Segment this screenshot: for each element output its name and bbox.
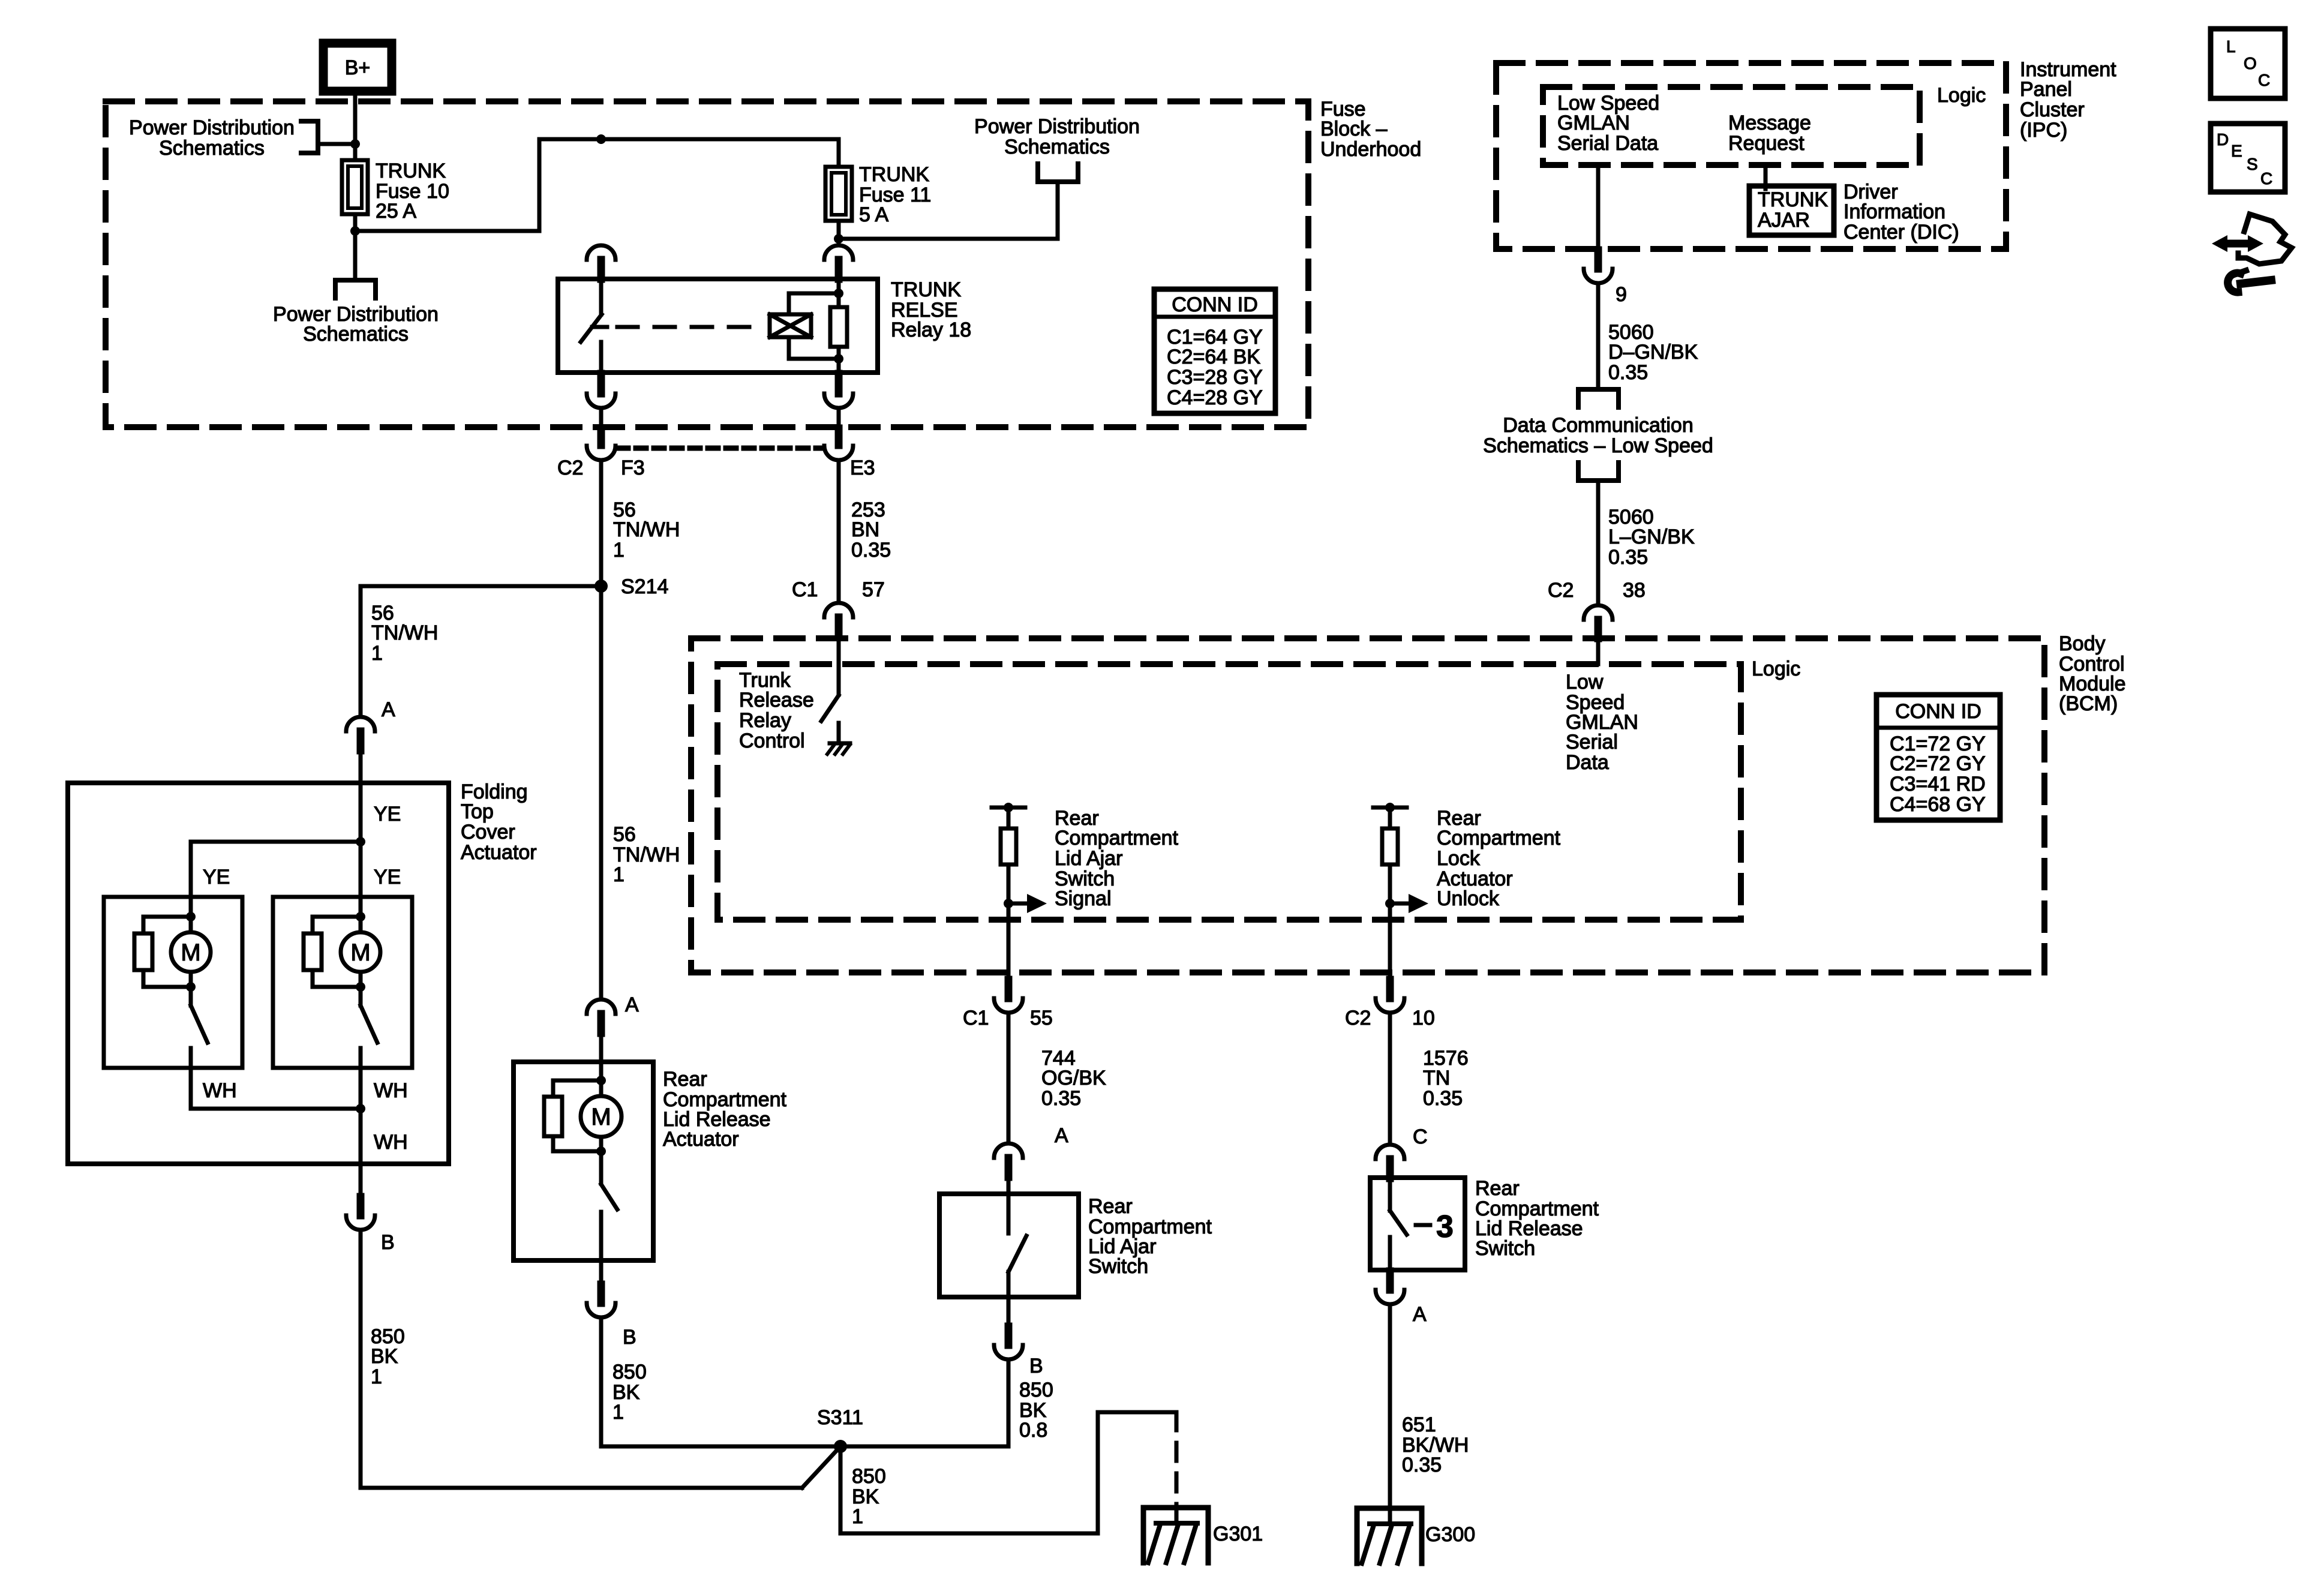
wire right motor return bbox=[359, 1068, 363, 1109]
svg-text:Switch: Switch bbox=[1475, 1237, 1535, 1260]
svg-text:B: B bbox=[623, 1326, 636, 1349]
svg-text:Information: Information bbox=[1843, 200, 1945, 223]
svg-text:1: 1 bbox=[371, 1365, 382, 1388]
svg-text:0.8: 0.8 bbox=[1019, 1419, 1047, 1442]
svg-text:TRUNK: TRUNK bbox=[891, 278, 961, 301]
connector pin relay 85 output (right) bbox=[835, 374, 843, 394]
node right motor bottom bbox=[356, 982, 365, 992]
body control module dashed box bbox=[691, 638, 2044, 972]
indicator TRUNK AJAR bbox=[1749, 186, 1834, 235]
svg-text:C4=28 GY: C4=28 GY bbox=[1167, 386, 1263, 409]
svg-text:0.35: 0.35 bbox=[1423, 1087, 1463, 1110]
svg-text:C1: C1 bbox=[963, 1007, 989, 1029]
svg-text:10: 10 bbox=[1412, 1007, 1435, 1029]
off-page bracket Power Distribution Schematics (right) bbox=[1038, 164, 1078, 182]
component box Rear Compartment Lid Ajar Switch bbox=[939, 1194, 1079, 1297]
svg-text:S214: S214 bbox=[621, 575, 668, 598]
arrow lock actuator unlock bbox=[1390, 902, 1412, 906]
svg-text:Actuator: Actuator bbox=[663, 1128, 739, 1151]
svg-text:TN: TN bbox=[1423, 1067, 1450, 1089]
svg-text:0.35: 0.35 bbox=[851, 539, 891, 562]
resistor left motor bbox=[143, 917, 191, 933]
svg-text:WH: WH bbox=[374, 1079, 408, 1102]
svg-text:651: 651 bbox=[1402, 1413, 1436, 1436]
svg-text:Logic: Logic bbox=[1752, 658, 1800, 680]
svg-text:TRUNK: TRUNK bbox=[1758, 188, 1828, 211]
svg-text:C2=72 GY: C2=72 GY bbox=[1890, 752, 1986, 775]
relay actuation dashed link bbox=[617, 325, 760, 329]
node lid release motor top bbox=[596, 1076, 606, 1085]
relay K18 TRUNK RELSE Relay 18 box bbox=[558, 279, 878, 373]
fuse F10 TRUNK Fuse 10 25 A bbox=[342, 160, 368, 214]
ipc logic dashed box bbox=[1543, 87, 1920, 165]
node lock actuator unlock bbox=[1385, 899, 1395, 908]
wire left motor return bbox=[189, 1068, 193, 1109]
icon LOC box bbox=[2211, 29, 2285, 98]
icon DESC box bbox=[2211, 124, 2285, 192]
relay solid-state diode box bbox=[770, 314, 811, 337]
node lid ajar signal bbox=[1004, 899, 1013, 908]
svg-text:57: 57 bbox=[862, 578, 885, 601]
wire 744 OG/BK bbox=[1007, 1013, 1011, 1143]
wire serial data into BCM logic bbox=[1596, 638, 1601, 664]
svg-text:OG/BK: OG/BK bbox=[1041, 1067, 1106, 1089]
motor unit box left bbox=[104, 897, 242, 1068]
svg-text:CONN ID: CONN ID bbox=[1172, 293, 1258, 316]
svg-text:1: 1 bbox=[613, 863, 624, 886]
node folding top feed split bbox=[356, 837, 365, 846]
svg-text:M: M bbox=[591, 1104, 611, 1130]
svg-text:F3: F3 bbox=[621, 457, 645, 479]
svg-text:C1: C1 bbox=[792, 578, 818, 601]
svg-text:GMLAN: GMLAN bbox=[1557, 112, 1630, 134]
svg-text:B: B bbox=[381, 1231, 395, 1254]
connector pin relay coil (right) bbox=[824, 245, 853, 260]
svg-text:Power Distribution: Power Distribution bbox=[974, 115, 1140, 138]
manual actuation dashed link bbox=[1416, 1223, 1430, 1227]
svg-text:1: 1 bbox=[612, 1401, 624, 1424]
svg-text:Message: Message bbox=[1728, 112, 1811, 134]
svg-text:YE: YE bbox=[374, 866, 401, 888]
resistor branch Rear Compartment Lid Ajar Switch Signal bbox=[992, 806, 1025, 810]
node below Fuse 11 bbox=[834, 234, 843, 244]
connector C2 38 into BCM bbox=[1584, 605, 1613, 620]
wire split to right motor bbox=[359, 842, 363, 917]
node right motor top bbox=[356, 912, 365, 921]
switch right motor bbox=[359, 987, 363, 1005]
resistor right motor bbox=[313, 917, 361, 933]
motor M lid release bbox=[599, 1080, 603, 1096]
svg-text:M: M bbox=[181, 939, 200, 966]
svg-text:D–GN/BK: D–GN/BK bbox=[1608, 341, 1698, 364]
svg-text:Logic: Logic bbox=[1937, 84, 1986, 107]
svg-text:WH: WH bbox=[374, 1131, 408, 1154]
svg-text:Compartment: Compartment bbox=[1437, 827, 1561, 849]
svg-text:9: 9 bbox=[1616, 283, 1627, 306]
resistor lid release motor bbox=[553, 1080, 601, 1097]
splice S214 bbox=[594, 580, 608, 593]
wire S311 to ground run bbox=[839, 1446, 843, 1533]
svg-text:Schematics: Schematics bbox=[159, 137, 265, 160]
svg-text:Lock: Lock bbox=[1437, 847, 1481, 870]
fuse F11 TRUNK Fuse 11 5 A bbox=[825, 167, 852, 221]
svg-text:Low: Low bbox=[1566, 671, 1604, 694]
wire into folding top actuator bbox=[359, 751, 363, 842]
svg-text:C3=41 RD: C3=41 RD bbox=[1890, 773, 1986, 795]
svg-text:Power Distribution: Power Distribution bbox=[129, 116, 295, 139]
svg-text:Cluster: Cluster bbox=[2020, 98, 2085, 121]
wire 850 BK 0.8 down bbox=[1007, 1359, 1011, 1446]
svg-text:Data Communication: Data Communication bbox=[1503, 414, 1693, 437]
svg-text:56: 56 bbox=[613, 823, 636, 846]
svg-text:5 A: 5 A bbox=[859, 203, 888, 226]
svg-text:YE: YE bbox=[203, 866, 230, 888]
wire top feed bus bbox=[539, 137, 837, 142]
svg-text:Relay: Relay bbox=[739, 709, 791, 732]
svg-text:Unlock: Unlock bbox=[1437, 887, 1500, 910]
node folding top return bbox=[356, 1104, 365, 1113]
svg-text:Request: Request bbox=[1728, 132, 1804, 155]
svg-text:Schematics: Schematics bbox=[303, 323, 409, 346]
svg-text:1: 1 bbox=[852, 1505, 863, 1528]
svg-text:C2: C2 bbox=[1345, 1007, 1371, 1029]
svg-text:Serial Data: Serial Data bbox=[1557, 132, 1658, 155]
connector C2 10 bbox=[1388, 903, 1392, 980]
motor M left bbox=[189, 917, 193, 932]
svg-text:C2=64 BK: C2=64 BK bbox=[1167, 346, 1260, 368]
node relay switch feed bbox=[596, 134, 606, 144]
wire 651 BK/WH to G300 bbox=[1388, 1304, 1392, 1508]
svg-text:G301: G301 bbox=[1213, 1523, 1263, 1545]
connector pin relay 86 (left) bbox=[587, 245, 615, 260]
connector A lid release switch bbox=[1386, 1271, 1394, 1290]
connector E3 bbox=[835, 428, 843, 445]
svg-text:S311: S311 bbox=[817, 1406, 863, 1429]
svg-text:25 A: 25 A bbox=[376, 200, 416, 223]
svg-text:Switch: Switch bbox=[1088, 1255, 1148, 1278]
svg-text:(IPC): (IPC) bbox=[2020, 119, 2067, 142]
connector A folding top cover actuator bbox=[346, 717, 375, 731]
svg-text:38: 38 bbox=[1623, 579, 1646, 602]
svg-text:BN: BN bbox=[851, 518, 879, 541]
fuse block underhood dashed box bbox=[106, 101, 1308, 427]
svg-text:Data: Data bbox=[1566, 751, 1609, 774]
svg-text:Rear: Rear bbox=[1475, 1177, 1520, 1200]
svg-text:Control: Control bbox=[739, 730, 805, 752]
svg-text:D: D bbox=[2217, 130, 2229, 149]
node B+ tap bbox=[350, 139, 360, 149]
svg-text:A: A bbox=[382, 698, 395, 721]
svg-text:YE: YE bbox=[374, 803, 401, 825]
conn id table BCM bbox=[1876, 695, 2000, 820]
svg-text:G300: G300 bbox=[1425, 1523, 1475, 1546]
wire message request to indicator bbox=[1764, 165, 1768, 189]
svg-text:0.35: 0.35 bbox=[1402, 1454, 1442, 1476]
ground internal BCM bbox=[830, 742, 850, 746]
svg-text:Rear: Rear bbox=[1088, 1195, 1133, 1218]
relay switch contact bbox=[599, 279, 603, 314]
svg-text:850: 850 bbox=[852, 1465, 886, 1488]
svg-text:A: A bbox=[625, 993, 639, 1016]
motor M right bbox=[359, 917, 363, 932]
svg-text:Compartment: Compartment bbox=[1055, 827, 1179, 849]
svg-text:Serial: Serial bbox=[1566, 731, 1618, 754]
svg-text:0.35: 0.35 bbox=[1041, 1087, 1081, 1110]
svg-text:C: C bbox=[1413, 1125, 1428, 1148]
connector B lid release actuator bbox=[599, 1260, 603, 1284]
wire gmlan serial data out of IPC bbox=[1596, 165, 1601, 250]
switch left motor bbox=[189, 987, 193, 1005]
wire fuse10 to relay feed riser bbox=[355, 229, 539, 233]
node left motor bottom bbox=[186, 982, 196, 992]
wire 5060 L-GN/BK bbox=[1596, 481, 1601, 605]
svg-text:E: E bbox=[2231, 142, 2242, 160]
splice S311 bbox=[834, 1440, 847, 1453]
conn id table fuse block bbox=[1154, 289, 1275, 413]
wire folding top actuator output bbox=[359, 1109, 363, 1197]
switch lid release actuator bbox=[599, 1151, 603, 1184]
svg-text:C2: C2 bbox=[1548, 579, 1574, 602]
component box Folding Top Cover Actuator bbox=[68, 783, 449, 1164]
svg-text:Cover: Cover bbox=[461, 821, 515, 843]
wire fuse11 to off-page reference bbox=[839, 237, 1058, 241]
svg-text:TRUNK: TRUNK bbox=[376, 160, 446, 182]
svg-text:Relay 18: Relay 18 bbox=[891, 319, 971, 341]
connector C lid release switch bbox=[1376, 1145, 1404, 1159]
power symbol B+ bbox=[323, 43, 392, 91]
svg-text:1: 1 bbox=[371, 642, 383, 665]
svg-text:O: O bbox=[2244, 54, 2257, 73]
svg-text:1: 1 bbox=[613, 539, 624, 562]
connector C2 F3 bbox=[597, 428, 605, 445]
svg-text:Schematics – Low Speed: Schematics – Low Speed bbox=[1483, 434, 1713, 457]
svg-text:C: C bbox=[2260, 169, 2272, 188]
svg-text:Release: Release bbox=[739, 689, 814, 712]
svg-text:Underhood: Underhood bbox=[1320, 138, 1421, 161]
wire 56 TN/WH from F3 bbox=[599, 460, 603, 999]
wire S214 branch to folding top actuator bbox=[361, 584, 601, 589]
svg-text:Actuator: Actuator bbox=[461, 841, 537, 864]
motor unit box right bbox=[273, 897, 412, 1068]
icon direction arrow with wrench bbox=[2238, 214, 2292, 264]
svg-text:(BCM): (BCM) bbox=[2059, 692, 2118, 715]
off-page bracket Power Distribution Schematics (below fuse 10) bbox=[335, 280, 376, 298]
svg-text:B: B bbox=[1029, 1355, 1043, 1377]
svg-text:WH: WH bbox=[203, 1079, 237, 1102]
wire into lid release actuator bbox=[599, 1033, 603, 1080]
connector B folding top cover actuator bbox=[357, 1197, 365, 1215]
wire 850 BK to S311 bbox=[359, 1230, 363, 1488]
connector pin relay 30 output (left) bbox=[597, 374, 605, 394]
svg-text:Body: Body bbox=[2059, 632, 2106, 655]
svg-text:Signal: Signal bbox=[1055, 887, 1112, 910]
connector 9 IPC bbox=[1595, 250, 1602, 269]
off-page bracket data communication (bottom) bbox=[1578, 463, 1619, 481]
wire split to left motor bbox=[191, 840, 361, 844]
arrow lid ajar switch signal bbox=[1008, 902, 1030, 906]
instrument panel cluster dashed box bbox=[1496, 63, 2006, 249]
svg-text:TN/WH: TN/WH bbox=[613, 518, 680, 541]
ground G300 bbox=[1357, 1508, 1422, 1563]
ground G301 bbox=[1143, 1508, 1208, 1563]
connector C1 55 bbox=[1007, 903, 1011, 980]
connector C1 57 into BCM bbox=[837, 460, 841, 603]
off-page bracket Power Distribution Schematics (upper left) bbox=[301, 121, 318, 153]
svg-text:B+: B+ bbox=[345, 56, 371, 79]
svg-text:C2: C2 bbox=[557, 457, 583, 479]
switch lid ajar bbox=[1007, 1177, 1011, 1233]
svg-text:M: M bbox=[350, 939, 370, 966]
wire dashed ground feed G301 bbox=[1175, 1412, 1179, 1506]
relay coil bbox=[837, 279, 841, 293]
connector line C2 bbox=[618, 446, 822, 451]
switch lid release bbox=[1388, 1178, 1392, 1211]
node left motor top bbox=[186, 912, 196, 921]
svg-text:L: L bbox=[2226, 37, 2236, 56]
svg-text:AJAR: AJAR bbox=[1758, 209, 1810, 232]
svg-text:A: A bbox=[1413, 1303, 1427, 1326]
svg-text:3: 3 bbox=[1436, 1209, 1454, 1244]
component box Rear Compartment Lid Release Actuator bbox=[514, 1062, 653, 1260]
bcm logic dashed box bbox=[717, 664, 1741, 920]
svg-text:850: 850 bbox=[612, 1361, 647, 1383]
svg-text:C4=68 GY: C4=68 GY bbox=[1890, 793, 1986, 816]
svg-text:C: C bbox=[2258, 71, 2270, 89]
svg-text:Top: Top bbox=[461, 800, 494, 823]
svg-text:0.35: 0.35 bbox=[1608, 546, 1648, 569]
svg-text:TN/WH: TN/WH bbox=[371, 622, 438, 644]
wire 1576 TN bbox=[1388, 1013, 1392, 1145]
node below Fuse 10 bbox=[353, 214, 358, 231]
svg-text:BK: BK bbox=[371, 1345, 398, 1368]
svg-text:TRUNK: TRUNK bbox=[859, 163, 929, 186]
svg-text:CONN ID: CONN ID bbox=[1895, 700, 1981, 723]
resistor branch Rear Compartment Lock Actuator Unlock bbox=[1373, 806, 1407, 810]
wire 850 BK to S311 (horizontal) bbox=[599, 1317, 603, 1446]
wire feed to Fuse 11 bbox=[837, 139, 841, 167]
svg-text:Rear: Rear bbox=[663, 1068, 707, 1091]
svg-text:Lid Ajar: Lid Ajar bbox=[1055, 847, 1122, 870]
wire below Fuse 11 bbox=[837, 221, 841, 244]
off-page bracket data communication (top) bbox=[1578, 389, 1619, 407]
svg-text:Schematics: Schematics bbox=[1004, 136, 1110, 158]
wire below Fuse 10 to off-page bbox=[353, 231, 358, 280]
svg-text:A: A bbox=[1055, 1124, 1068, 1147]
svg-text:55: 55 bbox=[1030, 1007, 1053, 1029]
wire B+ to Fuse 10 bbox=[353, 91, 358, 160]
svg-text:850: 850 bbox=[1019, 1379, 1053, 1401]
switch trunk release relay control bbox=[837, 637, 841, 695]
svg-text:0.35: 0.35 bbox=[1608, 361, 1648, 384]
svg-text:C3=28 GY: C3=28 GY bbox=[1167, 366, 1263, 389]
node lid release motor bottom bbox=[596, 1146, 606, 1156]
svg-text:L–GN/BK: L–GN/BK bbox=[1608, 526, 1695, 548]
connector B lid ajar switch bbox=[1007, 1297, 1011, 1326]
svg-text:Center (DIC): Center (DIC) bbox=[1843, 221, 1959, 244]
component box Rear Compartment Lid Release Switch bbox=[1370, 1178, 1465, 1270]
connector A lid ajar switch bbox=[994, 1143, 1023, 1158]
wire 5060 to data communication reference bbox=[1596, 283, 1601, 389]
svg-text:Panel: Panel bbox=[2020, 78, 2072, 101]
svg-text:S: S bbox=[2247, 155, 2258, 173]
svg-text:E3: E3 bbox=[850, 457, 875, 479]
svg-text:Block –: Block – bbox=[1320, 118, 1388, 140]
connector A lid release actuator bbox=[587, 999, 615, 1014]
